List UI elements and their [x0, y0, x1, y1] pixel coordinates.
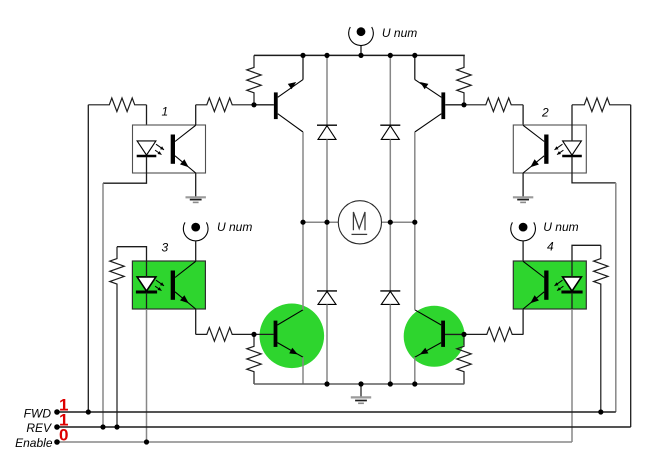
opto4 phototransistor [523, 261, 548, 309]
transistor Q3 (bottom-left, active) [274, 310, 303, 357]
opto3 LED [136, 277, 157, 292]
opto3 light arrows [155, 280, 164, 290]
transistor Q4 (bottom-right, active) [415, 310, 445, 357]
node bottom rail diode left [324, 381, 329, 386]
resistor R12 (opto4 input vertical) [594, 245, 608, 412]
wire diode column right lower [389, 222, 391, 291]
diode D3 (lower left) [317, 291, 337, 305]
wire opto3 cathode to Enable [146, 293, 148, 310]
node bottom rail diode right [388, 381, 393, 386]
wire opto2 emitter to ground [522, 173, 524, 197]
svg-text:U num: U num [217, 220, 252, 234]
wire vertical opto3-cathode net [146, 309, 148, 442]
resistor R3 (Q1 pull-up vertical) [247, 55, 261, 104]
wire ground tap [360, 384, 362, 397]
wire opto1 cathode to REV column [103, 157, 147, 184]
node REV to opto1 cathode [100, 424, 105, 429]
wire supply4 to opto4 collector [522, 241, 524, 261]
wire Q4 collector riser [414, 222, 416, 310]
node Q1 base [251, 102, 256, 107]
node bottom rail ground tap [358, 381, 363, 386]
opto1 LED [137, 141, 157, 156]
resistor R8 (Q3 base) [196, 328, 253, 342]
resistor R10 (Q4 base) [465, 328, 523, 342]
wire diode column left middle [326, 139, 328, 222]
node Q2 emitter rail [412, 53, 417, 58]
wire Q4 emitter to bottom rail [414, 357, 416, 384]
wire motor line left [303, 221, 338, 223]
wire top V+ rail [254, 54, 465, 56]
terminal FWD [54, 409, 60, 415]
diode D1 (upper left) [317, 125, 337, 139]
node Q1 emitter rail [300, 53, 305, 58]
svg-text:4: 4 [547, 239, 554, 253]
optocoupler U2 box [513, 125, 586, 173]
wire Q1 collector to motor node [302, 132, 304, 222]
node Q2 base [461, 102, 466, 107]
optocoupler U3 box (active) [132, 261, 205, 309]
svg-text:0: 0 [59, 425, 68, 444]
node Enable to opto3 cathode [144, 439, 149, 444]
power supply symbol U1 top [349, 27, 374, 46]
wire REV input line [57, 426, 631, 428]
svg-text:2: 2 [541, 106, 549, 120]
wire opto4 emitter drop [522, 309, 524, 334]
terminal Enable [54, 439, 60, 445]
svg-text:U num: U num [543, 220, 578, 234]
wire diode column left upper [326, 55, 328, 125]
node FWD to opto4 resistor [598, 409, 603, 414]
wire opto1 collector riser [195, 105, 197, 125]
wire opto3 anode jog [117, 247, 147, 277]
node FWD to left riser [86, 409, 91, 414]
resistor R9 (Q3 pull-down vertical) [247, 334, 261, 384]
wire supply3 to opto3 collector [195, 241, 197, 261]
wire diode column right bottom [389, 304, 391, 384]
optocoupler U4 box (active) [513, 261, 586, 309]
motor M1 circle [338, 201, 381, 244]
resistor R7 (opto3 input vertical) [110, 247, 124, 427]
svg-text:1: 1 [162, 105, 169, 119]
wire Q2 emitter to rail [414, 55, 416, 79]
wire Q1 base [254, 104, 274, 106]
power supply symbol U4 [511, 222, 536, 241]
svg-text:Enable: Enable [15, 436, 53, 450]
resistor R6 (opto2 LED series) [572, 98, 631, 112]
resistor R5 (Q2 base) [465, 98, 523, 112]
ground symbol under opto1 [186, 197, 206, 202]
wire Q3 emitter to bottom rail [302, 357, 304, 384]
wire opto2 LED anode riser [571, 105, 573, 141]
opto2 light arrows [555, 144, 564, 154]
opto1 light arrows [155, 144, 164, 154]
optocoupler U1 box [133, 125, 206, 173]
opto2 LED [562, 141, 582, 156]
opto4 LED [561, 277, 582, 292]
svg-text:U num: U num [382, 26, 417, 40]
node diode column left motor line [324, 220, 329, 225]
node motor line right chain [412, 220, 417, 225]
wire Enable input line [57, 441, 572, 443]
node diode column right motor line [388, 220, 393, 225]
opto2 phototransistor [523, 125, 548, 173]
node Q4 base [461, 332, 466, 337]
terminal REV [54, 424, 60, 430]
opto3 phototransistor [171, 261, 196, 309]
transistor Q1 (top-left) [274, 80, 303, 132]
wire opto4 anode jog [572, 245, 601, 277]
wire Q4 base [445, 333, 464, 335]
wire opto2 collector riser [522, 105, 524, 125]
resistor R1 (opto1 LED series) [88, 98, 146, 112]
wire vertical opto2-cathode net [615, 183, 617, 412]
ground symbol under opto2 [513, 197, 533, 202]
node motor line left chain [300, 220, 305, 225]
wire opto1 LED anode riser [146, 105, 148, 141]
opto1 phototransistor [171, 125, 196, 173]
wire motor line right [382, 221, 415, 223]
node supply tap on rail [358, 53, 363, 58]
wire Q3 base [254, 333, 274, 335]
wire bottom rail [254, 383, 464, 385]
wire Q2 base [445, 104, 464, 106]
wire opto4 cathode stub [571, 293, 573, 310]
wire Q3 collector riser [302, 222, 304, 310]
motor letter M with underline [352, 212, 368, 234]
power supply symbol U3 [183, 222, 208, 241]
wire vertical opto1-cathode net [102, 183, 104, 427]
node bottom rail Q4 emitter [412, 381, 417, 386]
node REV to opto3 resistor [114, 424, 119, 429]
transistor Q2 (top-right) [415, 80, 445, 132]
svg-text:REV: REV [26, 421, 52, 435]
wire diode column right upper [389, 55, 391, 125]
green highlight circle around transistor Q3 [260, 304, 325, 369]
green highlight circle around transistor Q4 [404, 306, 465, 367]
resistor R11 (Q4 pull-down vertical) [457, 334, 471, 384]
wire diode column right middle [389, 139, 391, 222]
wire diode column left lower-upper [326, 222, 328, 291]
resistor R4 (Q2 pull-up vertical) [457, 55, 471, 104]
diode D2 (upper right) [380, 125, 400, 139]
wire FWD input line [57, 411, 616, 413]
diode D4 (lower right) [380, 291, 400, 305]
wire Q2 collector to motor node [414, 132, 416, 222]
svg-text:FWD: FWD [24, 406, 52, 420]
power supply tap wire [360, 46, 362, 56]
wire opto3 emitter drop [195, 309, 197, 334]
wire REV riser right [630, 105, 632, 427]
wire opto1 emitter to ground [195, 173, 197, 197]
opto4 light arrows [555, 280, 564, 290]
wire FWD riser left [87, 105, 89, 412]
node diode column right top [388, 53, 393, 58]
resistor R2 (Q1 base) [196, 98, 253, 112]
ground symbol bottom center [351, 397, 371, 403]
wire opto2 cathode jog [572, 157, 616, 183]
svg-text:3: 3 [162, 241, 169, 255]
wire vertical opto4-cathode net [571, 309, 573, 442]
wire diode column left bottom [326, 304, 328, 384]
wire Q1 emitter to rail [302, 55, 304, 79]
node diode column left top [324, 53, 329, 58]
node Q3 base [251, 332, 256, 337]
